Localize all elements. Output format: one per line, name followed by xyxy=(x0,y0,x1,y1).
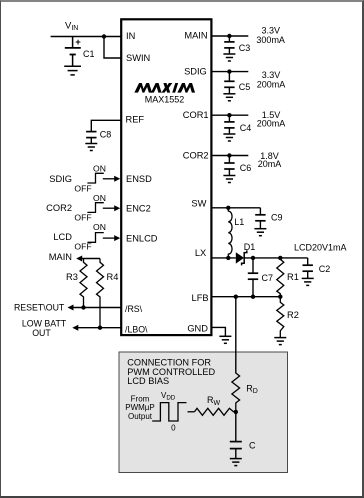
wire MAIN output xyxy=(211,35,248,37)
svg-text:SDIG: SDIG xyxy=(184,67,207,77)
svg-text:0: 0 xyxy=(171,424,176,433)
svg-text:REF: REF xyxy=(126,115,145,125)
wire SWIN branch xyxy=(104,37,121,59)
svg-text:OFF: OFF xyxy=(74,184,91,194)
wire LFB feedback xyxy=(211,296,280,298)
arrow into ENSD pin xyxy=(114,176,120,182)
svg-text:C1: C1 xyxy=(83,49,95,59)
resistor R3 xyxy=(80,259,87,308)
svg-text:LFB: LFB xyxy=(192,293,209,303)
junction L1 top on SW wire xyxy=(226,206,230,210)
svg-text:COR1: COR1 xyxy=(183,110,209,120)
junction C6 on COR2 wire xyxy=(227,153,231,157)
junction C5 on SDIG wire xyxy=(227,69,231,73)
ground below C1 xyxy=(64,66,81,75)
arrow into ENLCD pin xyxy=(114,235,120,241)
junction R1/R2 xyxy=(278,295,282,299)
svg-text:C8: C8 xyxy=(100,130,112,140)
ground below C9 xyxy=(254,229,266,236)
svg-text:SDIG: SDIG xyxy=(49,174,72,184)
svg-text:ON: ON xyxy=(93,163,106,173)
junction C4 on COR1 wire xyxy=(227,113,231,117)
ground below C2 xyxy=(302,278,314,285)
svg-text:D1: D1 xyxy=(244,242,256,252)
capacitor C8 xyxy=(86,132,96,138)
svg-text:ENLCD: ENLCD xyxy=(126,233,158,243)
capacitor C xyxy=(235,412,237,442)
capacitor C1 (polarized) xyxy=(65,37,81,67)
capacitor C6 xyxy=(228,156,230,164)
svg-text:IN: IN xyxy=(126,31,135,41)
svg-text:R2: R2 xyxy=(287,310,299,320)
junction C7 top xyxy=(251,256,255,260)
svg-text:OFF: OFF xyxy=(74,242,91,252)
svg-text:ENSD: ENSD xyxy=(126,174,152,184)
ground below C xyxy=(230,459,242,466)
wire VIN to IN pin xyxy=(51,36,122,38)
arrow into ENC2 pin xyxy=(114,205,120,211)
svg-text:20mA: 20mA xyxy=(258,159,282,169)
svg-text:OFF: OFF xyxy=(74,212,91,222)
resistor R2 xyxy=(277,297,284,338)
svg-text:Output: Output xyxy=(128,412,153,421)
svg-text:L1: L1 xyxy=(234,217,244,227)
svg-text:C5: C5 xyxy=(239,82,251,92)
svg-text:R3: R3 xyxy=(66,272,78,282)
ground below C5 xyxy=(223,94,235,101)
inductor L1 xyxy=(228,208,232,258)
resistor RW xyxy=(195,408,234,415)
capacitor C5 xyxy=(228,72,230,82)
svg-text:C4: C4 xyxy=(240,123,252,133)
junction L1 bottom on LX wire xyxy=(226,256,230,260)
svg-text:C9: C9 xyxy=(271,213,283,223)
PWM bias connection box xyxy=(119,352,288,473)
capacitor C7 xyxy=(252,258,254,273)
svg-text:GND: GND xyxy=(187,324,208,334)
wire /RS\ pin to RESET out xyxy=(73,307,122,309)
wire COR1 output xyxy=(211,114,248,116)
svg-text:SW: SW xyxy=(191,199,206,209)
svg-text:3.3V: 3.3V xyxy=(261,25,280,35)
wire RW to junction xyxy=(234,411,236,413)
svg-text:C2: C2 xyxy=(319,264,331,274)
svg-text:ENC2: ENC2 xyxy=(126,204,151,214)
svg-text:/LBO\: /LBO\ xyxy=(125,324,148,334)
svg-text:SWIN: SWIN xyxy=(126,53,150,63)
wire SW output xyxy=(211,207,260,209)
ground below C4 xyxy=(223,134,235,141)
junction R1 top xyxy=(278,256,282,260)
switch LCD on/off symbol xyxy=(87,233,115,243)
wire MAIN pullup rail xyxy=(81,258,100,260)
svg-text:C7: C7 xyxy=(262,273,274,283)
svg-text:LX: LX xyxy=(195,248,206,258)
junction RW/RD/C xyxy=(234,410,238,414)
junction C3 on MAIN wire xyxy=(227,34,231,38)
wire /LBO\ pin to LOW BATT out xyxy=(77,327,121,329)
svg-text:ON: ON xyxy=(93,193,106,203)
wire SDIG output xyxy=(211,71,248,73)
ground below C6 xyxy=(223,176,235,183)
junction IN/SWIN xyxy=(102,34,106,38)
diode D1 schottky xyxy=(236,252,244,263)
ground below C8 xyxy=(85,144,97,151)
wire COR2 output xyxy=(211,155,248,157)
svg-text:3.3V: 3.3V xyxy=(262,70,281,80)
arrow LOW BATT output xyxy=(72,325,78,331)
svg-text:LCD20V1mA: LCD20V1mA xyxy=(294,242,347,252)
PWM waveform symbol xyxy=(152,403,186,421)
MAXIM logo xyxy=(134,83,195,93)
capacitor C3 xyxy=(228,36,230,42)
capacitor C2 xyxy=(307,258,309,265)
switch SDIG on/off symbol xyxy=(87,173,115,183)
svg-text:LCD BIAS: LCD BIAS xyxy=(127,376,169,386)
svg-text:300mA: 300mA xyxy=(256,35,285,45)
arrow RESET output xyxy=(68,305,74,311)
svg-text:MAIN: MAIN xyxy=(49,252,72,262)
IC U1 MAX1552 body xyxy=(121,19,211,335)
resistor R4 xyxy=(97,259,104,328)
svg-text:OUT: OUT xyxy=(32,328,51,338)
junction C7 bottom xyxy=(251,295,255,299)
svg-text:C6: C6 xyxy=(240,163,252,173)
wire REF pin to C8 xyxy=(91,120,121,131)
svg-text:COR2: COR2 xyxy=(183,151,209,161)
wire LX to D1 anode xyxy=(211,257,235,259)
svg-text:C3: C3 xyxy=(239,43,251,53)
svg-text:MAX1552: MAX1552 xyxy=(145,94,185,104)
svg-text:R4: R4 xyxy=(107,272,119,282)
arrow to MAIN rail xyxy=(76,256,82,262)
wire LFB node down to RD xyxy=(235,297,237,374)
junction LFB to PWM box xyxy=(234,295,238,299)
svg-text:+: + xyxy=(75,37,81,48)
svg-text:/RS\: /RS\ xyxy=(125,304,143,314)
svg-text:LCD: LCD xyxy=(53,232,72,242)
capacitor C4 xyxy=(228,115,230,122)
ground below C3 xyxy=(223,54,235,61)
svg-text:MAIN: MAIN xyxy=(184,31,207,41)
junction R3 on /RS\ wire xyxy=(81,305,85,309)
switch COR2 on/off symbol xyxy=(87,203,115,213)
resistor R1 xyxy=(277,258,284,297)
wire D1 cathode to C2 xyxy=(244,257,308,259)
svg-text:R1: R1 xyxy=(287,272,299,282)
svg-text:C: C xyxy=(249,440,256,450)
wire GND pin to ground xyxy=(211,327,225,336)
capacitor C9 xyxy=(259,208,261,215)
svg-text:ON: ON xyxy=(93,222,106,232)
ground below R2 xyxy=(274,338,286,345)
svg-text:200mA: 200mA xyxy=(257,80,286,90)
svg-text:200mA: 200mA xyxy=(257,119,286,129)
junction R4 on /LBO\ wire xyxy=(98,326,102,330)
svg-text:RESET\OUT: RESET\OUT xyxy=(14,302,65,312)
ground at GND pin xyxy=(219,336,231,343)
resistor RD xyxy=(232,373,240,412)
svg-text:COR2: COR2 xyxy=(46,203,72,213)
